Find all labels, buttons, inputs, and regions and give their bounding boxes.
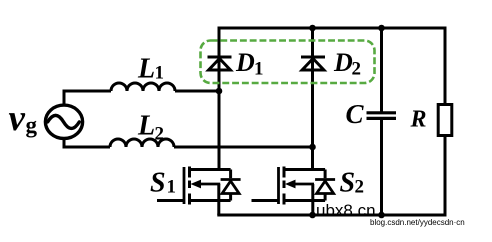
junction dot top bus / middle rail — [309, 25, 316, 32]
svg-text:L: L — [137, 110, 155, 141]
svg-text:g: g — [26, 113, 38, 138]
wire left rail (node A branch) — [218, 27, 221, 171]
svg-text:D: D — [333, 48, 353, 77]
resistor R body — [438, 105, 452, 136]
svg-text:2: 2 — [355, 177, 365, 198]
S1 drain lead — [190, 168, 231, 171]
transistor S2 — [252, 167, 336, 216]
wire capacitor branch upper — [380, 27, 383, 112]
transistor S1 — [157, 167, 241, 216]
wire resistor branch lower — [444, 136, 447, 216]
svg-text:1: 1 — [155, 62, 165, 83]
wire L2 to node B — [174, 146, 313, 149]
svg-text:S: S — [340, 168, 356, 199]
svg-text:v: v — [9, 98, 26, 139]
S1 gate bar — [183, 167, 186, 204]
svg-text:R: R — [410, 107, 427, 133]
svg-text:C: C — [346, 99, 365, 129]
wire L1 to node A — [175, 90, 219, 93]
junction dot top bus / capacitor branch — [378, 25, 385, 32]
svg-text:S: S — [150, 168, 166, 199]
S2 arrow head — [285, 180, 296, 189]
S1 body diode bar — [221, 178, 241, 181]
S1 source drop to bus — [217, 201, 220, 216]
S1 body arrow wire — [198, 183, 220, 186]
diode D2 — [301, 57, 325, 70]
S2 body diode lower lead — [324, 194, 327, 201]
S1 body-source drop — [217, 184, 220, 201]
S2 gate lead — [252, 199, 279, 202]
S2 body diode triangle — [317, 181, 334, 194]
S2 channel segments — [283, 167, 286, 178]
green dashed highlight box — [201, 41, 375, 84]
svg-text:1: 1 — [167, 177, 177, 198]
S2 source lead — [284, 199, 325, 202]
S1 body diode triangle — [222, 181, 239, 194]
AC source sine wave — [48, 115, 80, 128]
S2 body diode bar — [315, 178, 335, 181]
S2 body arrow wire — [293, 183, 315, 186]
AC source vg circle — [45, 105, 82, 138]
wire source top lead — [64, 91, 111, 105]
S2 gate bar — [277, 167, 280, 204]
S1 body diode upper lead — [229, 170, 232, 179]
svg-text:2: 2 — [352, 59, 362, 80]
S2 drain lead — [284, 168, 325, 171]
S2 body diode upper lead — [324, 170, 327, 179]
S2 body-source drop — [311, 184, 314, 201]
svg-text:2: 2 — [155, 124, 165, 145]
svg-text:L: L — [137, 53, 155, 84]
capacitor C plates — [367, 113, 397, 119]
diode D1 — [208, 57, 232, 70]
wire capacitor branch lower — [380, 120, 383, 215]
svg-text:ubx8.cn: ubx8.cn — [316, 201, 376, 220]
svg-text:blog.csdn.net/yydecsdn·cn: blog.csdn.net/yydecsdn·cn — [370, 218, 465, 227]
wire top bus — [219, 27, 445, 30]
svg-text:1: 1 — [254, 59, 264, 80]
inductor L2 — [110, 139, 174, 147]
wire bottom bus — [219, 214, 445, 217]
svg-text:D: D — [235, 48, 255, 77]
wire resistor branch upper — [444, 27, 447, 105]
node B junction dot — [309, 144, 316, 151]
S1 gate lead — [157, 199, 184, 202]
junction dot bottom bus / capacitor branch — [378, 212, 385, 219]
S2 source drop to bus — [311, 201, 314, 216]
node A junction dot — [216, 88, 223, 95]
wire source bottom lead — [64, 139, 110, 148]
wire middle rail (node B branch) — [311, 27, 314, 171]
S1 arrow head — [191, 180, 202, 189]
S1 channel segments — [188, 167, 191, 178]
junction dot bottom bus / S2 source — [309, 212, 316, 219]
S1 body diode lower lead — [229, 194, 232, 201]
S1 source lead — [190, 199, 231, 202]
inductor L1 — [111, 83, 175, 91]
